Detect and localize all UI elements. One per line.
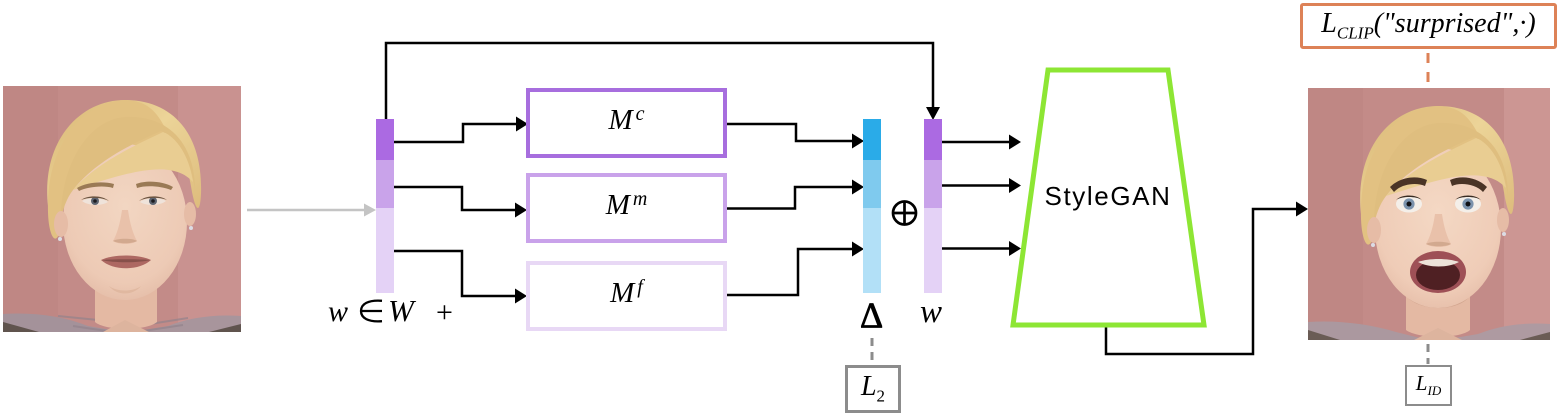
svg-text:W: W <box>388 296 417 328</box>
StyleGAN label <box>1037 181 1179 212</box>
left latent bar <box>376 119 394 293</box>
shoulders <box>1308 321 1428 340</box>
Mm to delta <box>727 187 853 209</box>
L_2 box <box>845 365 901 413</box>
L_CLIP box <box>1300 3 1557 49</box>
eyebrows dark raised <box>1390 177 1427 192</box>
Mf box <box>526 261 727 331</box>
eyes <box>82 198 108 205</box>
nose <box>1426 214 1451 247</box>
ears <box>1367 217 1381 243</box>
dashed gray line under delta bar <box>871 338 874 364</box>
StyleGAN out <box>1106 209 1297 354</box>
hair <box>1360 106 1514 244</box>
svg-text:+: + <box>436 296 453 329</box>
svg-text:w: w <box>328 296 348 328</box>
dashed gray line under output <box>1427 344 1430 364</box>
bar to Mm <box>394 187 516 210</box>
hair <box>47 100 201 238</box>
w label <box>920 294 942 331</box>
bangs <box>1374 123 1508 224</box>
dashed orange line <box>1427 53 1430 85</box>
face <box>63 144 187 300</box>
delta label <box>860 294 883 336</box>
bangs over forehead <box>61 117 195 218</box>
L_ID box <box>1405 365 1452 406</box>
input image photo <box>3 86 241 332</box>
Mc box <box>526 88 727 158</box>
ears <box>54 211 68 237</box>
neck <box>95 276 157 329</box>
earrings <box>1371 243 1375 247</box>
Mf to delta <box>727 249 853 295</box>
output image photo <box>1308 88 1550 340</box>
delta bar <box>863 119 881 293</box>
earrings <box>58 237 62 241</box>
bar to Mf <box>394 251 516 296</box>
w bar <box>924 119 942 293</box>
skip connection top <box>386 43 933 120</box>
w in W+ label <box>328 296 463 330</box>
chin shade <box>109 286 141 294</box>
nose <box>113 210 137 244</box>
wide eyes <box>1396 196 1422 213</box>
eyebrows <box>77 182 114 191</box>
face <box>1375 148 1501 308</box>
shoulders / plaid <box>3 314 123 333</box>
Mc to delta <box>727 124 853 141</box>
open mouth <box>1410 251 1466 293</box>
neck <box>1406 286 1470 337</box>
oplus symbol <box>893 201 917 225</box>
StyleGAN trapezoid <box>1013 70 1204 325</box>
w bar to StyleGAN <box>942 141 1010 144</box>
bar to Mc <box>394 124 517 142</box>
lips <box>101 256 151 269</box>
Mm box <box>526 173 727 243</box>
